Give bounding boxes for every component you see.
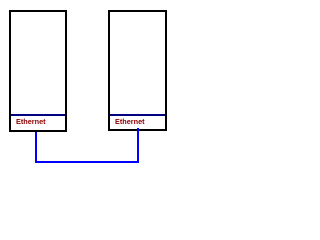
- separator line in U2: [110, 114, 165, 116]
- label Ethernet (U2 port): [115, 117, 145, 126]
- wire: left vertical segment from U1 Ethernet port: [35, 132, 37, 163]
- wire: right vertical segment to U2 Ethernet port: [137, 128, 139, 163]
- device box U1 (left generic device): [9, 10, 67, 132]
- device box U2 (right generic device): [108, 10, 167, 131]
- separator line in U1: [11, 114, 65, 116]
- label Ethernet (U1 port): [16, 117, 46, 126]
- wire: horizontal segment: [35, 161, 139, 163]
